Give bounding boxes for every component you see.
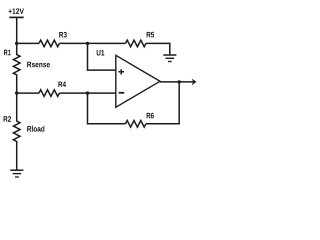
wire top rail middle (59, 42, 125, 44)
label R4 (58, 82, 66, 87)
node A junction dot (top left) (15, 42, 18, 45)
output arrow head (192, 79, 197, 86)
resistor R2 (13, 93, 20, 170)
label +12V (power net) (9, 8, 24, 14)
wire inverting tap down to feedback (88, 93, 126, 124)
label R5 (147, 32, 155, 38)
label R3 (59, 32, 67, 38)
node C junction dot (mid left) (15, 91, 18, 94)
ground (top right) (163, 54, 176, 56)
ground (bottom left) (10, 169, 23, 171)
node B junction dot (noninverting tap) (86, 42, 89, 45)
label Rsense (27, 62, 50, 67)
label Rload (27, 126, 44, 132)
resistor R5 (126, 40, 146, 47)
node D junction dot (inverting tap) (86, 91, 89, 94)
wire power stem (16, 17, 18, 43)
label U1 (97, 50, 105, 56)
pin - (inverting) (119, 92, 125, 94)
pin + (noninverting) (118, 69, 124, 74)
wire output (160, 81, 194, 83)
wire feedback right and up to output (146, 82, 179, 124)
wire middle rail left (17, 92, 39, 94)
resistor R1 (13, 43, 20, 93)
label R2 (4, 116, 11, 122)
resistor R6 (126, 121, 146, 128)
label R6 (147, 113, 154, 119)
power bar symbol (9, 16, 23, 18)
op-amp U1 (116, 55, 160, 107)
resistor R4 (39, 90, 59, 97)
label R1 (4, 50, 11, 55)
resistor R3 (39, 40, 59, 47)
wire top rail left (17, 42, 39, 44)
wire top rail right (146, 43, 170, 54)
wire to noninverting input (88, 43, 116, 70)
node E junction dot (output) (178, 80, 181, 83)
wire middle rail to inverting input (59, 92, 115, 94)
